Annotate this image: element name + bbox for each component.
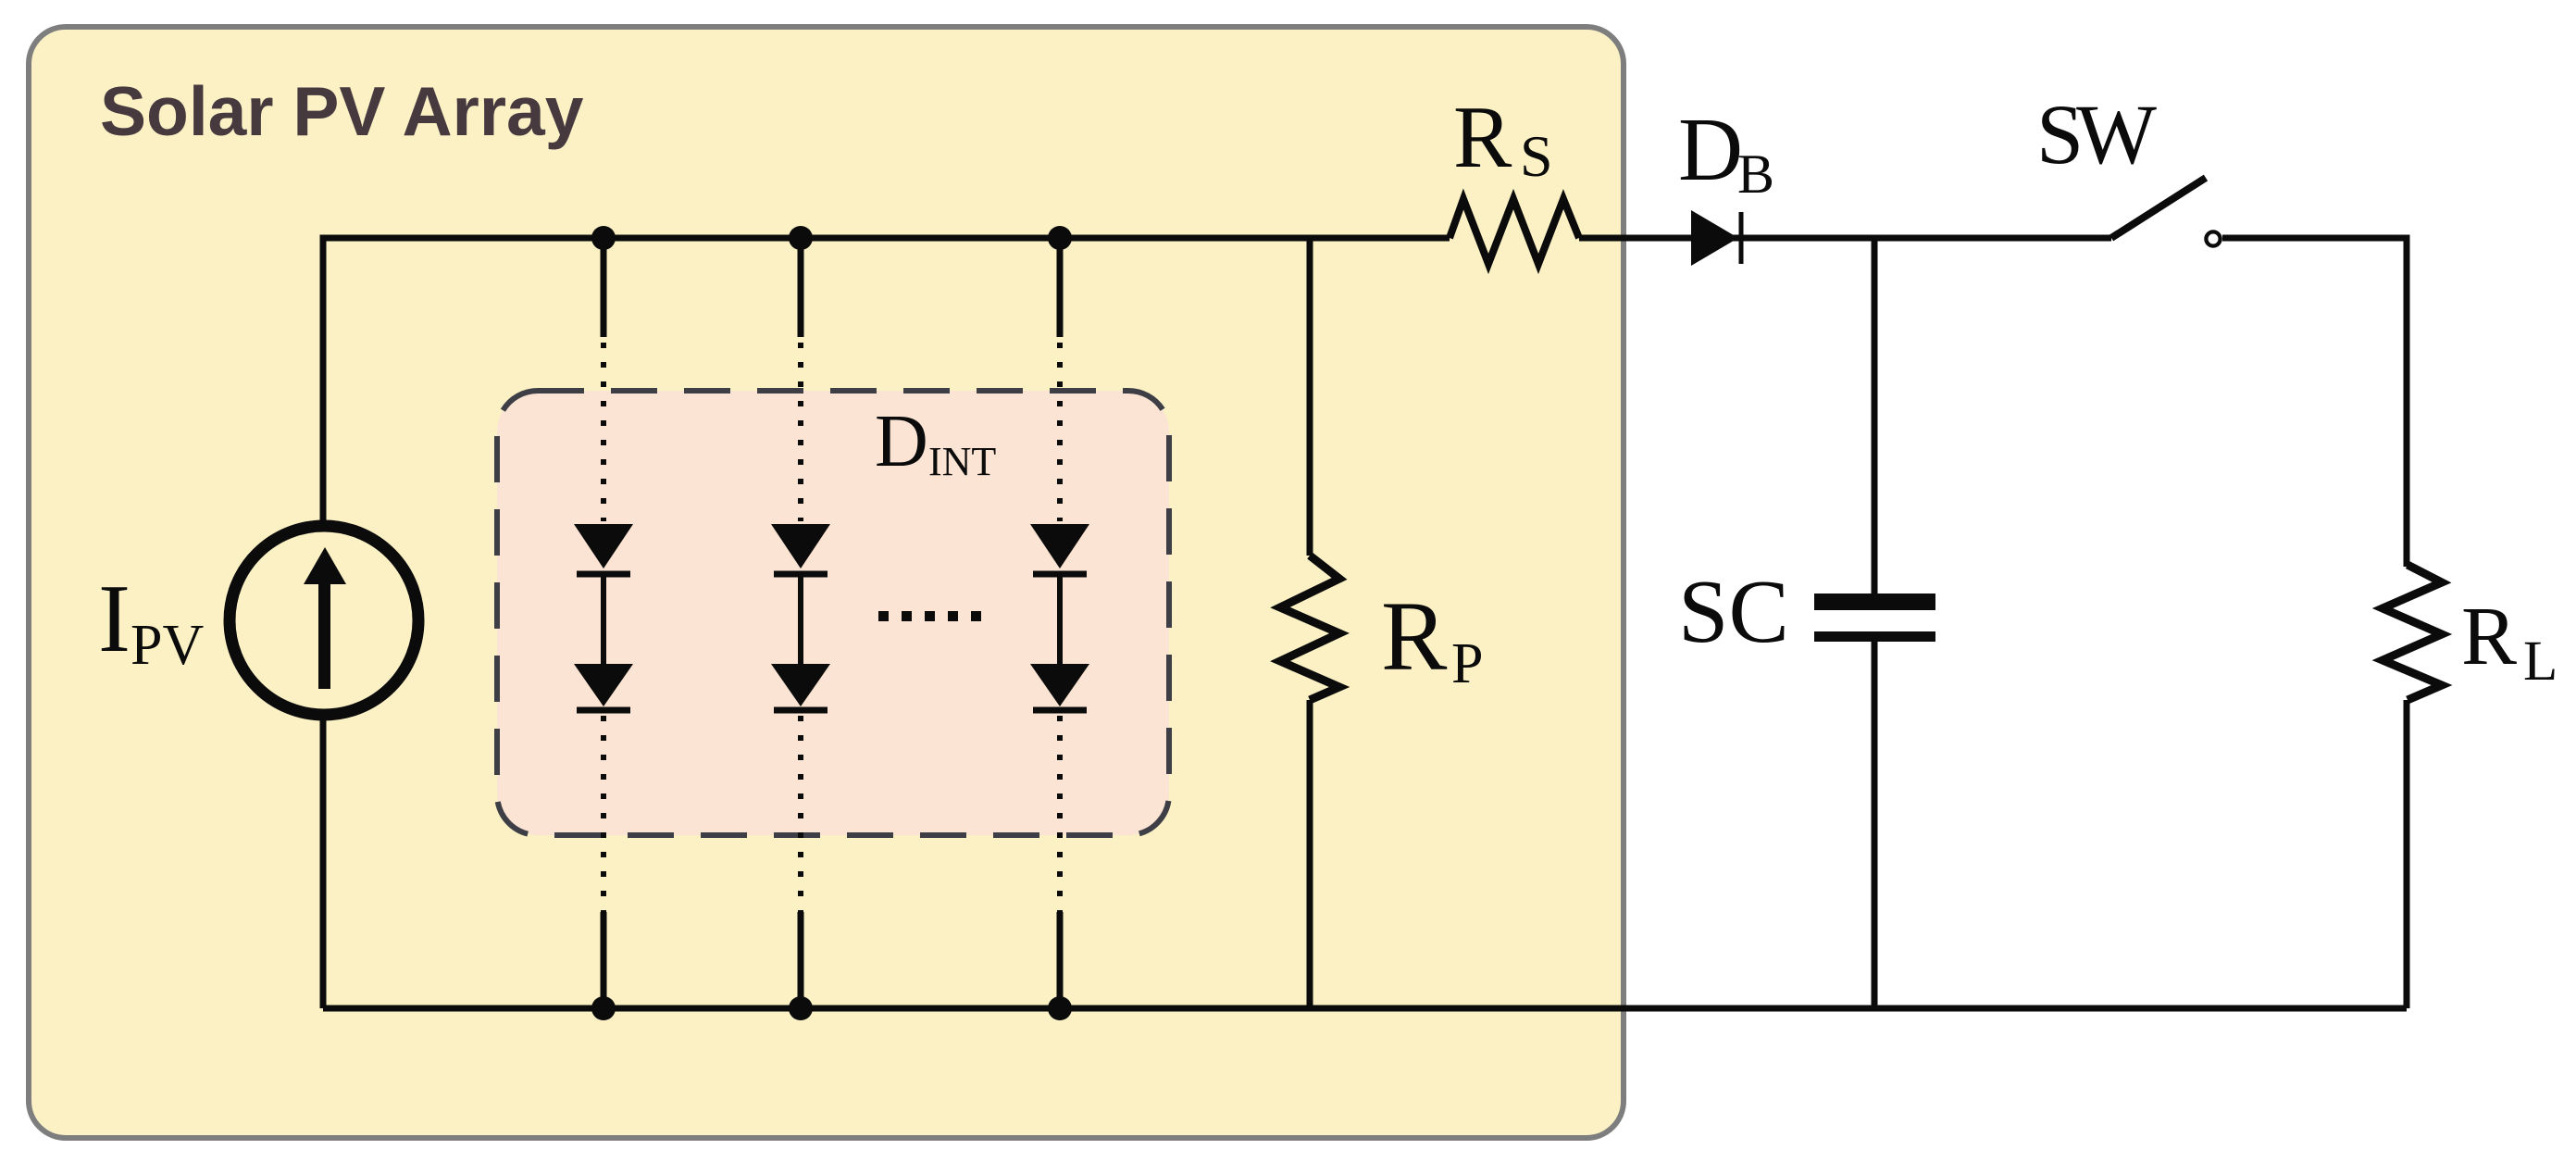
integrated diodes dashed box D_INT [497,391,1169,835]
diode D_INT column 3 top cathode bar [1033,571,1087,578]
diode D_INT column 2 top triangle [771,524,830,569]
diode D_INT column 1 top cathode bar [577,571,630,578]
svg-text:D: D [875,401,928,482]
wire column 2 lower dotted segment [798,716,803,912]
junction dot column 3 bottom [1048,996,1072,1020]
wire column 2 lower solid segment [798,912,804,1008]
diode D_INT column 2 bottom cathode bar [774,707,828,714]
label R_P [1381,582,1483,695]
resistor R_L zigzag [2383,565,2442,700]
svg-text:I: I [98,564,131,672]
label D_INT [875,401,996,484]
diode D_INT column 3 top triangle [1030,524,1089,569]
diode D_INT column 2 top cathode bar [774,571,828,578]
svg-text:D: D [1678,100,1743,199]
wire column 3 lower solid segment [1057,912,1064,1008]
switch SW blade [2111,178,2206,238]
diode D_INT column 1 top triangle [574,524,633,569]
diode D_INT column 2 bottom triangle [771,664,830,706]
wire column 2 upper dotted segment [798,343,803,521]
ellipsis dots between column 2 and column 3 [878,611,981,621]
wire bottom bus [323,1006,2407,1012]
wire column 3 middle segment [1057,577,1063,664]
diode D_INT column 3 bottom cathode bar [1033,707,1087,714]
label R_S [1453,88,1553,189]
current source I_PV circle [230,526,418,715]
wire column 2 upper solid segment [798,238,804,337]
wire column 1 upper solid segment [601,238,607,337]
current source I_PV arrow head [304,547,346,584]
resistor R_P zigzag [1280,556,1339,700]
supercapacitor SC bottom plate [1814,631,1935,642]
diode D_INT column 1 bottom triangle [574,664,633,706]
junction dot column 1 top [591,226,616,250]
wire left branch and top bus from I_PV to R_S [323,238,1450,1008]
wire column 3 upper dotted segment [1057,343,1063,521]
wire column 3 upper solid segment [1057,238,1064,337]
svg-text:S: S [1520,123,1553,189]
wire top bus from R_S to switch pivot [1579,235,2111,242]
label R_L [2461,591,2557,693]
svg-text:R: R [1381,582,1448,692]
wire column 1 lower solid segment [601,912,607,1008]
junction dot column 3 top [1048,226,1072,250]
diode D_B triangle [1691,210,1738,266]
svg-text:B: B [1737,144,1774,205]
svg-text:SC: SC [1678,562,1789,662]
switch SW contact circle [2206,231,2220,245]
junction dot column 1 bottom [591,996,616,1020]
wire column 1 middle segment [601,577,606,664]
wire from switch contact to right corner down to R_L [2222,238,2407,567]
wire right branch below R_L [2404,700,2410,1008]
wire R_P branch upper [1307,238,1313,556]
svg-text:P: P [1451,632,1483,695]
diode D_B cathode bar [1739,212,1744,264]
diode D_INT column 1 bottom cathode bar [577,707,630,714]
label I_PV [98,564,204,677]
wire column 1 lower dotted segment [601,716,606,912]
svg-text:R: R [2461,591,2517,682]
wire column 1 upper dotted segment [601,343,606,521]
junction dot column 2 top [789,226,813,250]
wire SC branch upper [1872,238,1878,594]
junction dot column 2 bottom [789,996,813,1020]
svg-text:INT: INT [928,439,996,484]
resistor R_S zigzag [1450,199,1579,264]
supercapacitor SC top plate [1814,593,1935,610]
wire column 3 lower dotted segment [1057,716,1063,912]
svg-text:L: L [2523,631,2557,693]
diode D_INT column 3 bottom triangle [1030,664,1089,706]
wire R_P branch lower [1307,700,1313,1008]
svg-text:Solar PV Array: Solar PV Array [100,72,584,150]
svg-text:SW: SW [2036,87,2157,181]
svg-text:R: R [1453,88,1512,186]
current source I_PV arrow shaft [318,581,330,689]
wire column 2 middle segment [798,577,803,664]
label D_B [1678,100,1774,205]
wire SC branch lower [1872,642,1878,1008]
svg-text:PV: PV [131,614,204,677]
Solar PV Array enclosure box [29,27,1624,1138]
